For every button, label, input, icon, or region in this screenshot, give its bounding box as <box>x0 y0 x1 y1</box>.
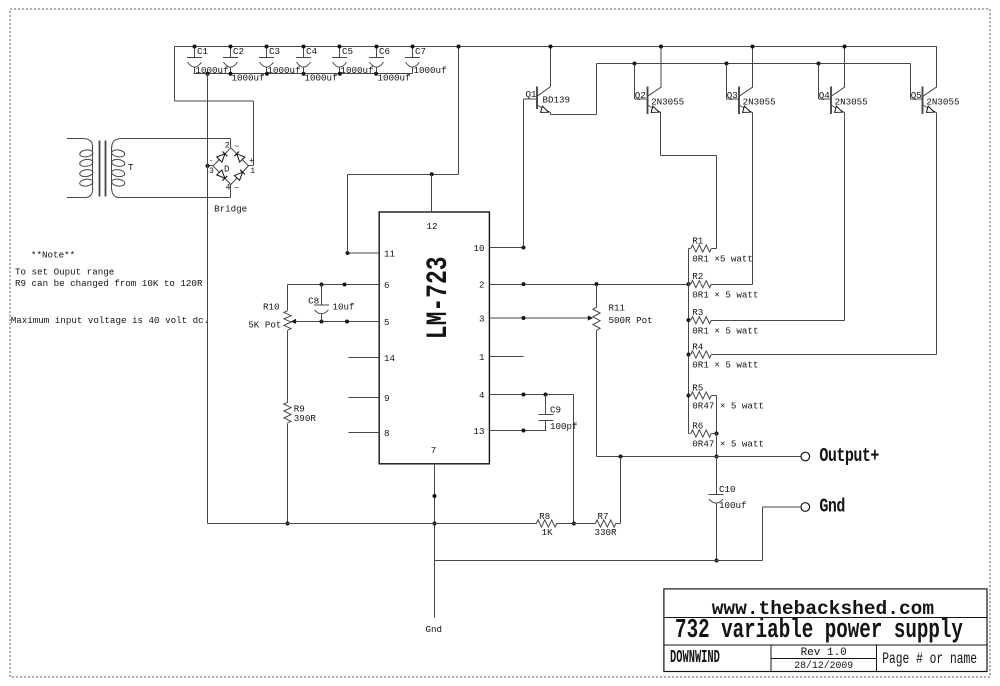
title text 732 variable power supply <box>675 616 963 646</box>
wire pin2 node down to R11 <box>596 285 598 308</box>
svg-text:R8: R8 <box>539 511 550 522</box>
svg-text:0R1 ×5 watt: 0R1 ×5 watt <box>692 254 753 265</box>
svg-text:C4: C4 <box>306 46 318 57</box>
wire pin 3 of U1 wiper of R11 <box>490 315 594 320</box>
svg-text:C1: C1 <box>197 46 209 57</box>
wire Q2 base drop <box>635 64 648 100</box>
svg-text:7: 7 <box>431 445 437 456</box>
svg-text:C2: C2 <box>233 46 244 57</box>
wire node to R7 <box>574 523 596 525</box>
svg-text:DOWNWIND: DOWNWIND <box>670 648 720 668</box>
wire Q5 emitter to R4 <box>712 113 937 355</box>
svg-text:2N3055: 2N3055 <box>651 96 684 107</box>
transformer T secondary winding <box>111 139 134 198</box>
svg-text:D: D <box>224 164 230 175</box>
wire bottom feedback rail <box>208 523 537 525</box>
svg-text:5K Pot: 5K Pot <box>248 320 281 331</box>
svg-text:0R1 × 5 watt: 0R1 × 5 watt <box>692 360 758 371</box>
resistor R7 330R <box>595 511 618 538</box>
resistor R3 0R1 × 5 watt <box>689 307 759 336</box>
wire ground bottom rail <box>435 560 763 562</box>
resistor R2 0R1 × 5 watt <box>689 271 759 300</box>
capacitor C9 100pf <box>539 395 578 433</box>
wire Output+ rail <box>597 455 802 459</box>
svg-text:LM-723: LM-723 <box>421 256 454 339</box>
bridge rectifier D <box>206 139 256 215</box>
svg-text:C5: C5 <box>342 46 353 57</box>
transformer T primary winding <box>67 139 93 198</box>
svg-text:**Note**: **Note** <box>31 250 75 261</box>
wire Q2 emitter to R1 <box>661 113 717 249</box>
svg-text:Q1: Q1 <box>526 89 538 100</box>
svg-text:+: + <box>249 157 254 166</box>
wire pin 4 drop to R8/R7 node <box>572 395 576 526</box>
wire Q1 emitter to driver rail <box>551 113 597 115</box>
resistor R8 1K <box>536 511 557 538</box>
svg-text:R9 can be changed from 10K to: R9 can be changed from 10K to 120R <box>15 278 203 289</box>
note text block <box>11 250 209 327</box>
terminal Output+ <box>801 446 879 467</box>
label Gnd at pin 7 lead <box>426 624 443 635</box>
svg-text:R1: R1 <box>692 235 704 246</box>
svg-text:2N3055: 2N3055 <box>743 96 776 107</box>
svg-text:R6: R6 <box>692 420 703 431</box>
wire Q5 collector to top rail <box>936 47 938 88</box>
resistor R9 390R <box>284 402 316 424</box>
svg-text:1000uf: 1000uf <box>268 65 301 76</box>
capacitor C3 1000uf <box>259 45 301 77</box>
svg-text:1: 1 <box>479 352 485 363</box>
svg-text:0R47 × 5 watt: 0R47 × 5 watt <box>692 439 764 450</box>
wire capacitor negative rail <box>194 73 413 75</box>
capacitor C5 1000uf <box>332 45 374 77</box>
capacitor C2 1000uf <box>223 45 265 84</box>
svg-text:C10: C10 <box>719 484 736 495</box>
svg-text:To set Ouput range: To set Ouput range <box>15 267 114 278</box>
wire R10 to R9 <box>287 331 289 403</box>
capacitor C4 1000uf <box>296 45 338 84</box>
wire R8 to node <box>557 523 574 525</box>
wire Q4 emitter to R3 <box>712 113 845 321</box>
svg-text:11: 11 <box>384 248 396 259</box>
svg-text:BD139: BD139 <box>543 94 571 105</box>
wire driver base rail <box>597 62 911 66</box>
svg-text:~: ~ <box>234 185 239 194</box>
wire R1 right to Q2 emitter riser <box>712 248 717 250</box>
svg-text:Gnd: Gnd <box>819 497 845 518</box>
svg-text:732 variable power supply: 732 variable power supply <box>675 616 963 646</box>
transistor Q4 2N3055 <box>819 87 868 115</box>
wire secondary top to bridge pin 2 <box>121 138 231 140</box>
svg-text:R10: R10 <box>263 302 280 313</box>
wire pin 12 drop <box>431 175 433 213</box>
wire driver base rail riser <box>596 64 598 115</box>
transistor Q3 2N3055 <box>727 87 776 115</box>
wire pin 6 of U1 <box>288 283 380 287</box>
wire R6 right corner <box>712 433 717 435</box>
wire Q4 collector to top rail <box>843 45 847 88</box>
transformer core <box>100 141 106 197</box>
capacitor C6 1000uf <box>369 45 411 84</box>
svg-text:1: 1 <box>250 167 255 176</box>
svg-text:12: 12 <box>426 221 437 232</box>
potentiometer R10 5K <box>248 302 291 331</box>
wire R9 to bottom rail <box>286 424 290 526</box>
resistor R5 0R47 × 5 watt <box>689 382 764 411</box>
svg-text:R11: R11 <box>609 303 626 314</box>
svg-text:R7: R7 <box>598 511 609 522</box>
svg-text:Rev 1.0: Rev 1.0 <box>801 647 847 659</box>
svg-text:0R47 × 5 watt: 0R47 × 5 watt <box>692 401 764 412</box>
title block Page # or name <box>882 651 977 668</box>
svg-text:1000uf: 1000uf <box>414 65 447 76</box>
wire pin 9 stub <box>349 397 380 399</box>
wire top rail left drop <box>174 47 176 102</box>
wire R5 right corner <box>712 396 719 436</box>
svg-text:C6: C6 <box>379 46 390 57</box>
wire pin 10 of U1 to Q1 base <box>490 246 526 250</box>
svg-text:T: T <box>128 162 134 173</box>
wire R7 right riser to output rail <box>616 457 621 524</box>
wire pin 4 of U1 <box>490 393 574 397</box>
svg-text:-: - <box>209 157 214 166</box>
svg-text:10uf: 10uf <box>333 302 355 313</box>
svg-text:2N3055: 2N3055 <box>926 96 959 107</box>
resistor R1 0R1 ×5 watt <box>689 235 753 264</box>
svg-text:1K: 1K <box>542 527 554 538</box>
wire pin 14 stub <box>349 357 380 359</box>
svg-text:500R Pot: 500R Pot <box>609 315 653 326</box>
title block box <box>664 589 988 672</box>
wire ballast resistor left bus <box>687 249 691 434</box>
wire negative bus vertical from capacitor rail to bottom rail <box>207 74 209 524</box>
svg-text:4: 4 <box>479 390 485 401</box>
title block DOWNWIND <box>670 648 720 668</box>
svg-text:Output+: Output+ <box>819 446 879 467</box>
wire pin 5 of U1 <box>294 320 380 324</box>
svg-text:R3: R3 <box>692 307 703 318</box>
resistor R4 0R1 × 5 watt <box>689 341 759 370</box>
wire Q1 base riser <box>523 99 525 248</box>
svg-text:3: 3 <box>479 313 485 324</box>
svg-text:8: 8 <box>384 428 390 439</box>
svg-text:R2: R2 <box>692 271 703 282</box>
capacitor C1 1000uf <box>187 45 229 77</box>
wire pin 11 of U1 <box>346 251 380 255</box>
wire R5/R6 node down to output rail <box>715 434 719 459</box>
svg-text:100uf: 100uf <box>719 500 747 511</box>
svg-text:390R: 390R <box>294 413 317 424</box>
wire Q3 emitter to R2 <box>712 113 753 285</box>
svg-text:Bridge: Bridge <box>214 204 247 215</box>
title block Rev 1.0 <box>801 647 847 659</box>
svg-text:C9: C9 <box>550 405 561 416</box>
svg-text:2: 2 <box>225 141 230 150</box>
svg-text:1000uf: 1000uf <box>196 65 229 76</box>
svg-text:C8: C8 <box>308 296 319 307</box>
svg-text:4: 4 <box>226 183 231 192</box>
svg-text:0R1 × 5 watt: 0R1 × 5 watt <box>692 325 758 336</box>
svg-text:28/12/2009: 28/12/2009 <box>794 660 853 671</box>
wire Q3 base drop <box>727 64 740 100</box>
terminal Gnd <box>801 497 845 518</box>
svg-text:5: 5 <box>384 317 390 328</box>
pot wiper arrow into R10 <box>291 319 296 324</box>
wire secondary bottom to bridge pin 4 <box>121 197 231 199</box>
capacitor C7 1000uf <box>405 45 447 77</box>
svg-text:C3: C3 <box>269 46 280 57</box>
IC pin number labels <box>384 221 485 456</box>
title text www.thebackshed.com <box>712 598 934 620</box>
op-amp regulator U1 LM-723 body <box>379 212 489 464</box>
wire positive top rail <box>175 46 938 48</box>
wire V+ feed horizontal <box>348 172 459 176</box>
wire Q5 base drop <box>911 64 923 100</box>
svg-text:Gnd: Gnd <box>426 624 443 635</box>
wire R11 to output rail <box>596 331 598 457</box>
wire Q3 collector to top rail <box>751 45 755 88</box>
svg-text:3: 3 <box>209 167 214 176</box>
wire Q1 collector to top rail <box>549 45 553 87</box>
wire Q2 collector to top rail <box>659 45 663 88</box>
svg-text:R4: R4 <box>692 341 704 352</box>
junction dots on capacitor rail <box>206 72 379 76</box>
wire Q4 base drop <box>819 64 832 100</box>
wire pin 7 ground drop <box>433 464 437 618</box>
transistor Q1 BD139 <box>526 87 571 113</box>
svg-text:330R: 330R <box>595 527 618 538</box>
svg-text:2N3055: 2N3055 <box>835 96 868 107</box>
wire V+ feed riser to top rail <box>457 45 461 175</box>
svg-text:0R1 × 5 watt: 0R1 × 5 watt <box>692 289 758 300</box>
svg-text:Page # or name: Page # or name <box>882 651 977 668</box>
wire pin 1 stub <box>490 356 524 358</box>
wire pin 13 of U1 <box>490 429 547 433</box>
capacitor C8 10uf <box>308 285 354 322</box>
wire Q1 base <box>524 98 538 100</box>
svg-text:1000uf: 1000uf <box>341 65 374 76</box>
svg-text:100pf: 100pf <box>550 421 578 432</box>
svg-text:R5: R5 <box>692 382 703 393</box>
wire pin 2 of U1 <box>490 282 691 286</box>
svg-text:C7: C7 <box>415 46 426 57</box>
wire pin 8 stub <box>349 432 380 434</box>
svg-text:~: ~ <box>234 143 239 152</box>
svg-text:9: 9 <box>384 393 390 404</box>
svg-text:13: 13 <box>473 426 484 437</box>
wire bridge plus feed drop to bridge pin 1 <box>253 101 255 166</box>
capacitor C10 100uf <box>709 457 747 563</box>
potentiometer R11 500R <box>593 303 653 331</box>
wire pin 6 corner down to R10 <box>287 285 289 311</box>
svg-text:10: 10 <box>473 243 484 254</box>
transistor Q5 2N3055 <box>911 87 960 115</box>
wire bridge plus feed horizontal <box>175 100 254 102</box>
svg-text:2: 2 <box>479 280 485 291</box>
svg-text:Maximum input voltage is 40 vo: Maximum input voltage is 40 volt dc. <box>11 315 209 326</box>
wire Gnd terminal lead <box>763 507 802 561</box>
wire pin 11 riser <box>347 175 349 254</box>
resistor R6 0R47 × 5 watt <box>689 420 764 449</box>
svg-text:14: 14 <box>384 353 396 364</box>
svg-text:6: 6 <box>384 280 390 291</box>
title block date 28/12/2009 <box>794 660 853 671</box>
transistor Q2 2N3055 <box>635 87 684 115</box>
